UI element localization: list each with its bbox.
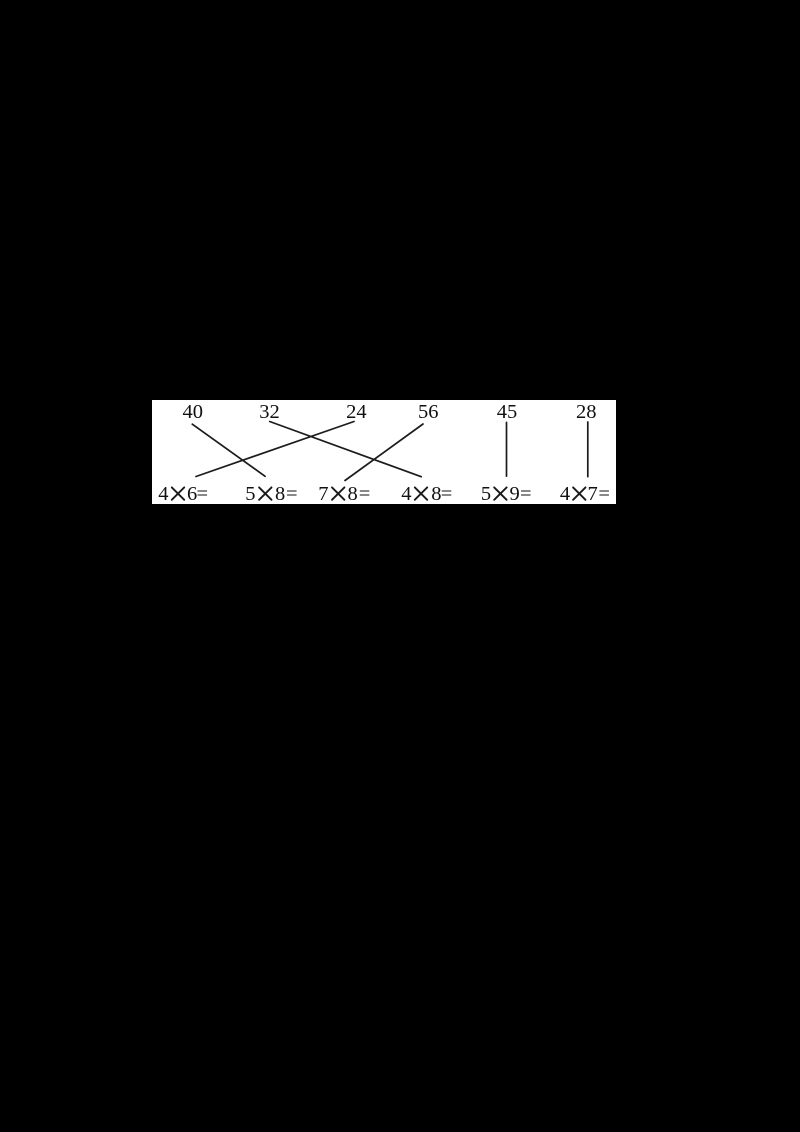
- svg-text:4: 4: [401, 483, 411, 504]
- svg-text:32: 32: [259, 401, 280, 423]
- matching line 56 to 7x8=: [345, 424, 423, 481]
- svg-text:8: 8: [348, 483, 358, 504]
- svg-text:7: 7: [318, 483, 328, 504]
- svg-text:7: 7: [588, 483, 598, 504]
- svg-text:4: 4: [158, 483, 168, 504]
- svg-text:=: =: [520, 483, 532, 504]
- svg-text:=: =: [441, 483, 453, 504]
- svg-text:5: 5: [245, 483, 255, 504]
- worksheet panel: [152, 400, 616, 509]
- multiply sign of 5x9=: [494, 487, 506, 499]
- matching line 45 to 5x9=: [506, 422, 508, 476]
- multiply sign of 4x7=: [573, 487, 585, 499]
- matching line 40 to 5x8=: [192, 424, 265, 476]
- matching line 28 to 4x7=: [587, 422, 589, 477]
- svg-text:8: 8: [275, 483, 285, 504]
- svg-text:=: =: [598, 483, 610, 504]
- multiply sign of 4x6=: [172, 487, 184, 499]
- svg-text:40: 40: [183, 401, 204, 423]
- multiply sign of 4x8=: [415, 487, 427, 499]
- svg-text:5: 5: [481, 483, 491, 504]
- svg-text:=: =: [197, 483, 209, 504]
- svg-text:4: 4: [560, 483, 570, 504]
- svg-text:24: 24: [346, 401, 367, 423]
- svg-text:=: =: [286, 483, 298, 504]
- white background: [152, 400, 616, 504]
- multiply sign of 5x8=: [259, 487, 271, 499]
- svg-text:56: 56: [418, 401, 439, 423]
- svg-text:=: =: [359, 483, 371, 504]
- svg-text:28: 28: [576, 401, 597, 423]
- svg-text:9: 9: [510, 483, 520, 504]
- multiply sign of 7x8=: [332, 487, 344, 499]
- matching line 32 to 4x8=: [270, 422, 422, 477]
- matching line 24 to 4x6=: [196, 422, 354, 477]
- svg-text:45: 45: [497, 401, 518, 423]
